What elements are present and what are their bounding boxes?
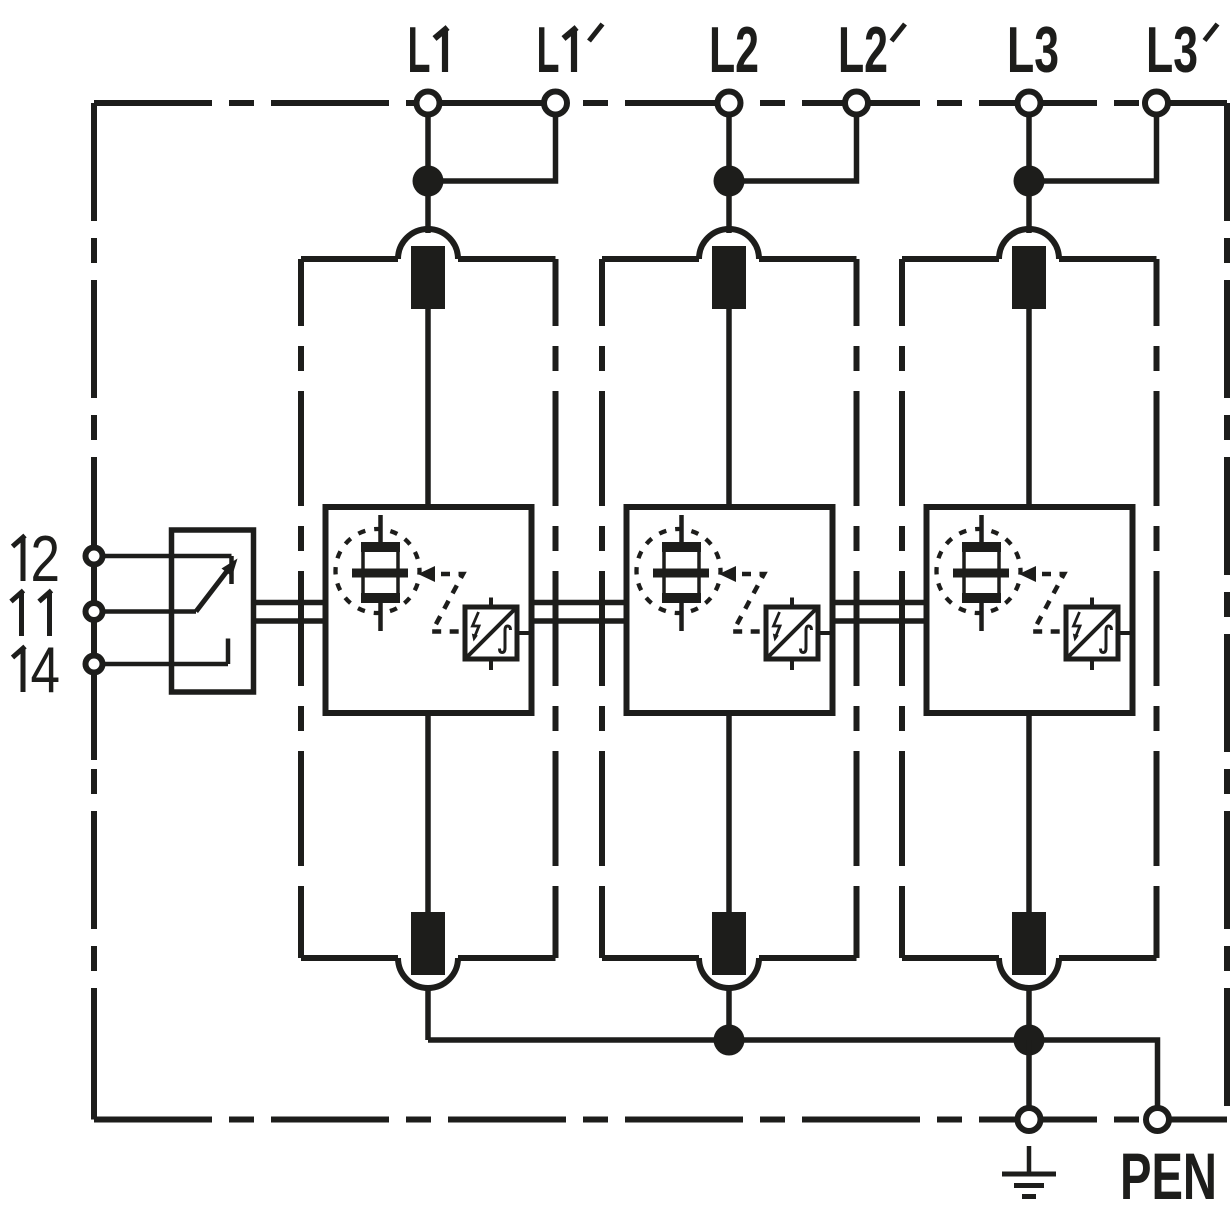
trigger dashed link L3 — [1033, 574, 1065, 632]
varistor bottom electrode L3 — [962, 593, 1001, 603]
label 14 — [13, 647, 26, 693]
trigger dashed link L1 — [432, 574, 464, 632]
mechanical linkage double line module 1 to module 2 — [532, 600, 627, 606]
wire disconnector to SPD box L1 — [425, 309, 431, 507]
spark gap top stub L2 — [790, 598, 794, 608]
spark gap box L2 — [766, 607, 818, 659]
trigger arrow L1 — [418, 566, 435, 582]
wire disconnector to SPD box L2 — [726, 309, 732, 507]
earth symbol bar 2 — [1014, 1183, 1044, 1188]
terminal L2´ — [845, 92, 868, 115]
varistor middle electrode L3 — [953, 569, 1009, 578]
switch moving contact arm — [196, 569, 229, 612]
spark gap diagonal L2 — [769, 610, 816, 657]
wire L3´ terminal down and left to node — [1029, 115, 1157, 182]
varistor top electrode L1 — [361, 542, 400, 552]
top disconnector fuse bar L2 — [712, 246, 746, 309]
module 3 dashed enclosure top edge — [902, 256, 999, 262]
terminal 11 — [86, 603, 103, 620]
top disconnector arc L2 — [699, 229, 759, 259]
svg-text:L2: L2 — [709, 13, 759, 86]
wire between L1 and L1´ (solid segment) — [440, 100, 544, 106]
spark gap box L3 — [1066, 607, 1118, 659]
spark gap lightning bolt L1 — [473, 612, 480, 637]
svg-text:L2: L2 — [838, 13, 888, 86]
varistor top electrode L3 — [962, 542, 1001, 552]
varistor bottom electrode L1 — [361, 593, 400, 603]
bottom disconnector fuse bar L3 — [1012, 912, 1046, 975]
node junction L3 — [1014, 166, 1045, 197]
enclosure border right (dash-dot) — [1224, 103, 1230, 1120]
varistor body sides L1 — [361, 552, 365, 593]
top disconnector arc L3 — [999, 229, 1059, 259]
enclosure border solid run near signalling terminals — [91, 480, 97, 760]
module 3 dashed enclosure right edge — [1154, 259, 1160, 326]
earth terminal — [1018, 1108, 1041, 1131]
terminal L3´ — [1145, 92, 1168, 115]
svg-text:L: L — [537, 13, 560, 86]
varistor middle electrode L1 — [352, 569, 408, 578]
terminal 14 — [86, 656, 103, 673]
terminal L3 — [1018, 92, 1041, 115]
module 1 dashed enclosure left edge — [298, 259, 304, 326]
enclosure border solid run at top-right corner — [1224, 103, 1230, 172]
spark gap bottom stub L2 — [790, 659, 794, 670]
module 1 dashed enclosure bottom edge — [301, 955, 398, 961]
varistor bottom electrode L2 — [662, 593, 701, 603]
terminal L1 — [417, 92, 440, 115]
switch arm arrowhead — [222, 559, 238, 577]
spark gap integral sign L3 — [1101, 626, 1112, 653]
prime mark L3´ — [1205, 24, 1218, 41]
spark gap bottom stub L1 — [489, 659, 493, 670]
wire disconnector to SPD box L3 — [1026, 309, 1032, 507]
wire SPD box to bottom disconnector L2 — [726, 713, 732, 912]
trigger arrow L3 — [1019, 566, 1036, 582]
svg-text:2: 2 — [31, 522, 61, 595]
bottom disconnector fuse bar L1 — [411, 912, 445, 975]
wire terminal 11 to switch — [103, 609, 197, 614]
spark gap top stub L3 — [1090, 598, 1094, 608]
fixed contact hook 14 — [226, 639, 231, 665]
varistor body sides L2 — [662, 552, 666, 593]
SPD module box L3 — [927, 507, 1133, 713]
wire L3 terminal down to node — [1026, 115, 1032, 182]
spark gap diagonal L1 — [468, 610, 515, 657]
enclosure border top (dash-dot) — [94, 100, 1227, 106]
PE bus junction node module 2 — [714, 1025, 745, 1056]
thermal monitoring dashed circle L3 — [937, 529, 1021, 613]
varistor middle electrode L2 — [653, 569, 709, 578]
thermal monitoring dashed circle L1 — [336, 529, 420, 613]
wire SPD box to bottom disconnector L3 — [1026, 713, 1032, 912]
changeover switch box — [172, 530, 254, 692]
wire bottom disconnector to PE bus L2 — [726, 986, 732, 1040]
terminal PEN — [1146, 1108, 1169, 1131]
varistor bottom lead L3 — [979, 603, 984, 631]
enclosure border bottom (dash-dot) — [94, 1117, 1227, 1123]
varistor body sides L3 — [962, 552, 966, 593]
prime mark L1´ — [589, 24, 603, 41]
wire node to top disconnector L2 — [726, 196, 732, 233]
spark gap right stub L1 — [517, 631, 532, 635]
wire SPD box to bottom disconnector L1 — [425, 713, 431, 912]
bottom disconnector arc L3 — [999, 958, 1059, 988]
terminal L1´ — [544, 92, 567, 115]
spark gap integral sign L2 — [801, 626, 812, 653]
bottom disconnector arc L1 — [398, 958, 458, 988]
node junction L1 — [413, 166, 444, 197]
fixed contact stub 12 — [229, 556, 234, 584]
module 3 dashed enclosure bottom edge — [902, 955, 999, 961]
spark gap bottom stub L3 — [1090, 659, 1094, 670]
label 12 — [13, 536, 26, 582]
svg-text:4: 4 — [31, 633, 61, 706]
earth symbol bar 3 — [1022, 1194, 1036, 1199]
enclosure border solid run right of PEN — [1170, 1117, 1227, 1123]
spark gap lightning bolt L2 — [774, 612, 781, 637]
terminal L2 — [718, 92, 741, 115]
spark gap top stub L1 — [489, 598, 493, 608]
wire L1´ terminal down and left to node — [428, 115, 556, 182]
wire bottom disconnector to PE bus L1 — [425, 986, 431, 1040]
wire L2´ terminal down and left to node — [729, 115, 857, 182]
top disconnector arc L1 — [398, 229, 458, 259]
wire terminal 12 to switch — [103, 554, 232, 559]
svg-text:L: L — [408, 13, 431, 86]
PE bus wire — [428, 1040, 1158, 1108]
wire PE bus to earth terminal — [1026, 1040, 1032, 1108]
earth symbol stem — [1027, 1146, 1032, 1174]
wire L1 terminal down to node — [425, 115, 431, 182]
enclosure border left (dash-dot) — [91, 103, 97, 1120]
mechanical linkage double line module 2 to module 3 — [833, 600, 927, 606]
module 2 dashed enclosure top edge — [602, 256, 699, 262]
trigger dashed link L2 — [733, 574, 765, 632]
spark gap diagonal L3 — [1069, 610, 1116, 657]
label 11 — [11, 591, 24, 637]
spark gap right stub L3 — [1118, 631, 1133, 635]
module 1 dashed enclosure top edge — [301, 256, 398, 262]
module 2 dashed enclosure left edge — [599, 259, 605, 326]
bottom disconnector fuse bar L2 — [712, 912, 746, 975]
svg-text:L3: L3 — [1146, 13, 1198, 86]
top disconnector fuse bar L3 — [1012, 246, 1046, 309]
spark gap box L1 — [465, 607, 517, 659]
module 2 dashed enclosure right edge — [854, 259, 860, 326]
varistor bottom lead L2 — [679, 603, 684, 631]
module 3 dashed enclosure left edge — [899, 259, 905, 326]
module 1 dashed enclosure right edge — [553, 259, 559, 326]
spark gap right stub L2 — [818, 631, 833, 635]
varistor top lead L2 — [679, 515, 684, 543]
varistor top electrode L2 — [662, 542, 701, 552]
wire node to top disconnector L1 — [425, 196, 431, 233]
svg-text:L3: L3 — [1007, 13, 1059, 86]
wire node to top disconnector L3 — [1026, 196, 1032, 233]
varistor top lead L1 — [378, 515, 383, 543]
mechanical linkage double line switch to module 1 — [254, 600, 326, 606]
enclosure border solid run at bottom-left corner — [91, 1050, 97, 1120]
SPD module box L2 — [627, 507, 833, 713]
wire bottom disconnector to PE bus L3 — [1026, 986, 1032, 1040]
prime mark L2´ — [892, 24, 906, 41]
SPD module box L1 — [326, 507, 532, 713]
bottom disconnector arc L2 — [699, 958, 759, 988]
PE bus junction node module 3 — [1014, 1025, 1045, 1056]
varistor bottom lead L1 — [378, 603, 383, 631]
spark gap integral sign L1 — [500, 626, 511, 653]
trigger arrow L2 — [719, 566, 736, 582]
terminal 12 — [86, 548, 103, 565]
earth symbol bar 1 — [1002, 1172, 1056, 1177]
module 2 dashed enclosure bottom edge — [602, 955, 699, 961]
wire L2 terminal down to node — [726, 115, 732, 182]
wire terminal 14 to switch — [103, 662, 229, 667]
varistor top lead L3 — [979, 515, 984, 543]
svg-text:PEN: PEN — [1120, 1139, 1217, 1213]
enclosure border bottom corner solid run — [94, 1117, 161, 1123]
top disconnector fuse bar L1 — [411, 246, 445, 309]
node junction L2 — [714, 166, 745, 197]
thermal monitoring dashed circle L2 — [637, 529, 721, 613]
spark gap lightning bolt L3 — [1074, 612, 1081, 637]
